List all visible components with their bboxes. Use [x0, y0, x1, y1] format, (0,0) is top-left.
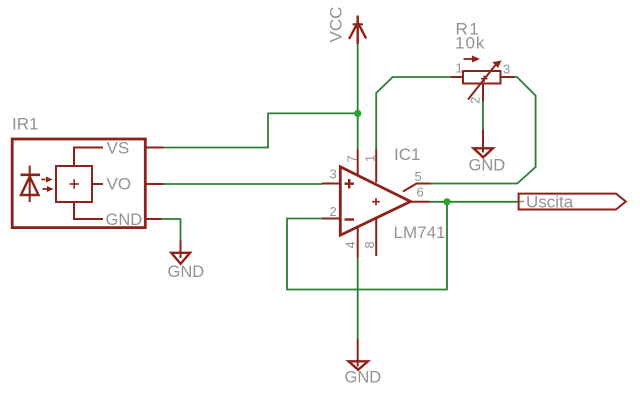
op-amp IC1 triangle: [340, 167, 410, 235]
IR sensor IR1 body: [12, 139, 145, 228]
IR1 internal leads: [74, 148, 103, 220]
flag Uscita: [519, 194, 626, 210]
svg-text:2: 2: [467, 97, 482, 104]
wire R1 pin 3 to op-amp pin 5 (offset loop right): [431, 77, 536, 184]
node output junction: [443, 198, 450, 205]
svg-text:1: 1: [456, 61, 463, 76]
op-amp center plus mark: [372, 198, 379, 205]
svg-text:3: 3: [503, 62, 510, 77]
svg-text:LM741: LM741: [394, 223, 446, 242]
wire IR1 GND pin to ground: [160, 219, 181, 241]
wire VS to VCC node: [164, 113, 358, 147]
svg-text:3: 3: [330, 167, 337, 182]
op-amp input plus mark: [345, 179, 355, 188]
wire VO to op-amp pin 3: [164, 183, 323, 185]
IR1 light arrows: [42, 177, 54, 193]
svg-text:Uscita: Uscita: [526, 193, 574, 212]
svg-text:VCC: VCC: [327, 7, 346, 43]
svg-text:6: 6: [417, 185, 424, 200]
ground GND under IR1: [171, 241, 190, 264]
svg-text:IC1: IC1: [394, 145, 420, 164]
svg-text:VS: VS: [107, 139, 130, 158]
wire op-amp pin1 to R1 pin 1 (offset loop left): [376, 77, 451, 149]
svg-text:GND: GND: [345, 369, 382, 387]
IR1 inner detector box: [56, 166, 92, 202]
svg-text:7: 7: [344, 155, 359, 162]
op-amp input minus mark: [345, 218, 355, 220]
IR1 inner box plus: [70, 179, 80, 188]
ground GND under R1: [474, 130, 493, 158]
node junction VCC / VS / pin7: [354, 110, 361, 117]
svg-text:8: 8: [362, 241, 377, 248]
wire VCC to op-amp pin 7: [357, 44, 359, 149]
op-amp IC1 pin stubs: [322, 149, 431, 258]
potentiometer R1 body: [463, 71, 501, 84]
svg-text:VO: VO: [107, 175, 132, 194]
IR1 photodiode: [21, 166, 41, 203]
svg-text:10k: 10k: [455, 34, 485, 53]
R1 adjust arrow: [464, 56, 481, 63]
svg-text:IR1: IR1: [12, 115, 38, 134]
R1 pin stubs: [451, 77, 515, 101]
svg-text:2: 2: [330, 204, 337, 219]
svg-text:GND: GND: [469, 157, 506, 175]
power symbol VCC: [349, 16, 366, 45]
R1 body plus mark: [481, 76, 488, 83]
svg-text:GND: GND: [168, 263, 205, 281]
wire R1 wiper pin 2 to ground (green middle): [482, 101, 484, 130]
IR1 pin stubs: [146, 148, 164, 220]
wire op-amp output pin 6 to Uscita: [430, 201, 518, 203]
svg-text:4: 4: [343, 241, 358, 248]
R1 wiper arrow: [468, 61, 502, 100]
svg-text:1: 1: [362, 155, 377, 162]
svg-text:5: 5: [415, 169, 422, 184]
wire op-amp pin 4 to bottom ground: [357, 258, 359, 340]
svg-text:GND: GND: [106, 211, 143, 229]
wire feedback pin 2 to output node: [287, 202, 447, 290]
ground GND bottom: [349, 339, 368, 370]
